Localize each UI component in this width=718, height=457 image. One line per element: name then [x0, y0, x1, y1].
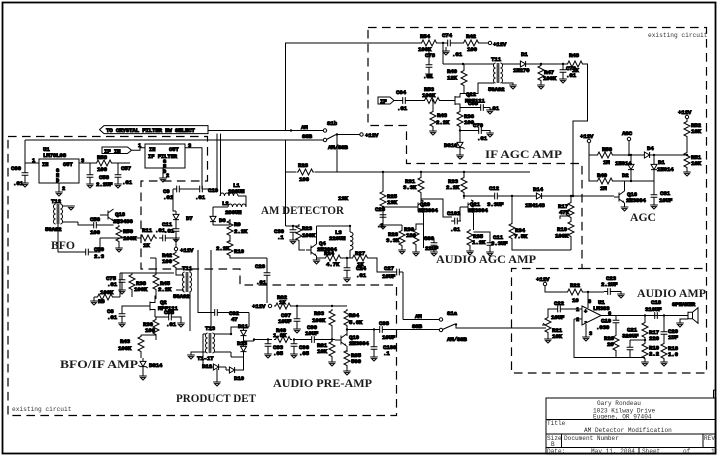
svg-text:R43: R43 [437, 112, 448, 119]
svg-text:2: 2 [576, 317, 579, 323]
resistor R31 [403, 171, 424, 202]
svg-text:D1: D1 [658, 159, 665, 166]
transistor Q19 [335, 327, 369, 352]
svg-text:.05: .05 [273, 350, 284, 357]
svg-text:2.2UF: 2.2UF [96, 181, 113, 188]
svg-text:13K: 13K [338, 195, 349, 202]
svg-text:1M: 1M [600, 185, 607, 192]
capacitor C7 [155, 309, 185, 328]
resistor R26 [383, 213, 406, 254]
wire top loop [286, 43, 421, 131]
svg-text:2.3: 2.3 [94, 253, 105, 260]
resistor R61 [317, 338, 336, 366]
svg-text:+12V: +12V [678, 109, 692, 116]
capacitor C78 [423, 48, 436, 80]
svg-text:C68: C68 [468, 100, 479, 107]
svg-text:C98: C98 [379, 320, 390, 327]
resistor R43 [118, 335, 156, 358]
svg-text:May 11, 2004: May 11, 2004 [591, 448, 635, 455]
svg-text:R59: R59 [123, 228, 134, 235]
svg-text:1M: 1M [603, 159, 610, 166]
svg-text:IF: IF [380, 98, 387, 105]
svg-text:6: 6 [608, 311, 611, 317]
svg-text:R11: R11 [142, 227, 153, 234]
svg-text:100K: 100K [543, 75, 557, 82]
ground product det [213, 382, 221, 386]
capacitor C22 [548, 300, 582, 321]
capacitor C58 [87, 163, 114, 188]
capacitor C12 [463, 185, 533, 208]
switch S1b [301, 120, 348, 151]
+12V terminal at S1b [360, 132, 379, 139]
resistor R24 [317, 250, 343, 268]
capacitor C99 [294, 324, 335, 343]
svg-text:R22: R22 [570, 282, 581, 289]
svg-text:L2: L2 [222, 200, 229, 207]
svg-text:AM: AM [301, 124, 308, 131]
svg-text:T13: T13 [205, 325, 216, 332]
svg-text:3.3UF: 3.3UF [487, 201, 504, 208]
svg-text:TO CRYSTAL FILTER BW SELECT: TO CRYSTAL FILTER BW SELECT [106, 127, 195, 134]
svg-text:AM DETECTOR: AM DETECTOR [261, 204, 345, 217]
capacitor C18 [645, 299, 662, 319]
svg-text:47: 47 [231, 316, 238, 323]
wire IF FILTER gnd [162, 168, 164, 178]
svg-text:560: 560 [351, 358, 362, 365]
svg-text:100K: 100K [134, 286, 148, 293]
resistor R23 [293, 224, 316, 250]
diode D10 [217, 357, 245, 382]
resistor R47 [537, 63, 557, 89]
wire agc line junction [572, 195, 574, 197]
svg-text:Sheet: Sheet [642, 448, 661, 455]
resistor R63 [312, 309, 335, 340]
+12V terminal agc [580, 133, 597, 155]
zener DS16 [444, 139, 465, 159]
svg-text:AM/SSB: AM/SSB [328, 144, 348, 151]
svg-text:50A02: 50A02 [173, 293, 190, 300]
resistor R30 [404, 224, 424, 256]
svg-text:4.7K: 4.7K [326, 261, 340, 268]
transistor Q18 [100, 209, 133, 225]
ground under C58 [86, 181, 94, 188]
svg-text:PRODUCT DET: PRODUCT DET [176, 392, 256, 405]
svg-text:existing circuit: existing circuit [648, 32, 708, 39]
existing circuit dashed boundary (top right region) [368, 28, 707, 374]
switch S1a [412, 310, 467, 343]
svg-text:2N3904: 2N3904 [626, 197, 646, 204]
svg-text:1N914: 1N914 [657, 166, 674, 173]
svg-text:10UF: 10UF [382, 273, 396, 280]
wire bw select risers [217, 134, 221, 188]
+12V terminal right [678, 109, 692, 120]
diode D12 [202, 352, 226, 370]
svg-text:AUDIO AGC AMP: AUDIO AGC AMP [436, 253, 536, 266]
diode D11 [230, 313, 249, 340]
+12V terminal top [488, 41, 507, 48]
svg-text:100K: 100K [118, 345, 132, 352]
svg-text:R54: R54 [420, 33, 431, 40]
capacitor C26 [255, 258, 270, 303]
capacitor C79 [559, 63, 576, 83]
svg-text:Gary Rondeau: Gary Rondeau [597, 400, 641, 407]
capacitor C19 [596, 316, 619, 332]
svg-text:2.2K: 2.2K [234, 228, 248, 235]
svg-text:10UF: 10UF [551, 314, 565, 321]
resistor R11 [100, 227, 157, 249]
resistor R25 [380, 171, 398, 208]
svg-text:1N270: 1N270 [513, 67, 530, 74]
block IF FILTER [145, 143, 191, 175]
svg-text:3: 3 [589, 331, 592, 337]
op-amp U1 LM386 [576, 292, 611, 341]
+12V terminal audio amp [536, 276, 566, 292]
diode D1 [502, 51, 536, 74]
resistor R19 [641, 339, 659, 366]
svg-text:BFO: BFO [51, 239, 75, 252]
svg-text:1: 1 [138, 143, 141, 149]
svg-text:+12V: +12V [365, 132, 379, 139]
svg-text:310UF: 310UF [645, 306, 662, 313]
svg-text:1K: 1K [572, 67, 579, 74]
capacitor C9 [163, 186, 196, 201]
transistor Q4 [306, 226, 337, 264]
svg-text:C18: C18 [651, 299, 662, 306]
wire U1 out [79, 162, 130, 164]
resistor R50 [596, 146, 641, 166]
svg-text:1: 1 [711, 448, 715, 455]
svg-text:1N4148: 1N4148 [525, 202, 545, 209]
svg-text:OUT: OUT [63, 162, 73, 168]
diode D6 [210, 213, 230, 225]
svg-text:D4: D4 [647, 145, 654, 152]
wire S1a to audio amp [456, 325, 546, 329]
capacitor C30 [424, 235, 439, 256]
svg-text:2.2UF: 2.2UF [601, 281, 618, 288]
transistor Q21 [460, 200, 488, 230]
svg-text:.1: .1 [277, 234, 284, 241]
resistor R65 [343, 349, 361, 375]
diode D13 [231, 339, 248, 357]
svg-text:C22: C22 [554, 300, 565, 307]
svg-text:C27: C27 [384, 265, 395, 272]
svg-text:10K: 10K [317, 348, 328, 355]
svg-text:.01: .01 [477, 135, 488, 142]
svg-text:C70: C70 [473, 122, 484, 129]
ground under U1 [55, 192, 63, 196]
resistor R62 [274, 294, 347, 309]
capacitor C68 [460, 100, 500, 114]
svg-text:180: 180 [406, 232, 417, 239]
svg-text:T11: T11 [182, 265, 193, 272]
svg-text:IN: IN [149, 147, 155, 153]
svg-text:+12V: +12V [536, 276, 550, 283]
capacitor C92 [198, 250, 249, 323]
wire AM bus [208, 130, 324, 132]
svg-text:D6: D6 [219, 217, 226, 224]
svg-text:5.6K: 5.6K [349, 319, 363, 326]
svg-text:+12V: +12V [493, 41, 507, 48]
svg-text:R28: R28 [298, 162, 309, 169]
svg-text:+12V: +12V [580, 133, 594, 140]
resistor R18 [660, 338, 678, 366]
svg-text:.01: .01 [107, 281, 118, 288]
wire SSB bus [25, 139, 324, 141]
capacitor C97 [278, 306, 301, 333]
svg-text:+: + [584, 309, 587, 315]
svg-text:22UF: 22UF [425, 245, 439, 252]
resistor R64 [344, 309, 363, 336]
svg-text:100K: 100K [302, 232, 316, 239]
svg-text:2N3486: 2N3486 [113, 218, 133, 225]
svg-text:R42: R42 [466, 33, 477, 40]
pot R17b [558, 195, 574, 219]
svg-text:12K: 12K [447, 75, 458, 82]
svg-text:IN: IN [42, 162, 48, 168]
svg-text:IF AGC AMP: IF AGC AMP [485, 148, 562, 161]
svg-text:100: 100 [90, 229, 101, 236]
resistor R38 [129, 273, 148, 297]
svg-text:1.2K: 1.2K [472, 239, 486, 246]
svg-text:2.2K: 2.2K [158, 286, 172, 293]
svg-text:100: 100 [97, 166, 108, 173]
svg-text:R64: R64 [349, 312, 360, 319]
ground under C57 [114, 181, 122, 188]
wire feedback [574, 316, 688, 358]
svg-text:C81: C81 [660, 190, 671, 197]
svg-text:.05: .05 [299, 350, 310, 357]
ground T13 [187, 334, 203, 359]
svg-text:10UF: 10UF [278, 318, 292, 325]
svg-text:.01: .01 [164, 228, 175, 235]
svg-text:R23: R23 [302, 225, 313, 232]
diode D4 [641, 145, 687, 158]
svg-text:S1b: S1b [327, 120, 338, 127]
svg-text:R48: R48 [569, 52, 580, 59]
resistor R36b [457, 108, 475, 140]
capacitor C57 [115, 163, 133, 186]
diode D14 [525, 186, 614, 209]
svg-text:R9: R9 [234, 221, 241, 228]
zener DS14 [138, 358, 162, 380]
wire S1b common to +12V [337, 134, 360, 136]
svg-text:B: B [551, 441, 555, 448]
svg-text:100: 100 [299, 176, 310, 183]
resistor R43b [429, 99, 450, 135]
svg-text:C101: C101 [447, 210, 461, 217]
transistor Q2 [136, 296, 178, 317]
flag TO CRYSTAL FILTER BW SELECT [100, 126, 209, 134]
svg-text:.01: .01 [450, 226, 461, 233]
resistor R35 [466, 229, 486, 255]
svg-text:2: 2 [62, 186, 65, 192]
resistor R10 [216, 239, 267, 258]
svg-text:.01: .01 [489, 105, 500, 112]
svg-text:100: 100 [145, 327, 156, 334]
resistor R54 [418, 33, 438, 53]
svg-text:C24: C24 [356, 265, 367, 272]
capacitor C39 [274, 225, 297, 244]
svg-text:.01: .01 [452, 51, 463, 58]
svg-text:1UF: 1UF [668, 334, 679, 341]
svg-text:.01: .01 [195, 194, 206, 201]
svg-text:2.2K: 2.2K [436, 119, 450, 126]
transformer T11b [173, 265, 193, 331]
svg-text:3.3K: 3.3K [386, 237, 400, 244]
existing circuit dashed boundary (left region) [8, 137, 397, 416]
capacitor C98 [376, 320, 440, 341]
+12V terminal BFO/IF amp [174, 247, 194, 254]
capacitor C56 [78, 216, 114, 236]
resistor R17 [642, 314, 660, 342]
inductor L3 [329, 225, 353, 258]
svg-text:13K: 13K [387, 199, 398, 206]
resistor R34 [509, 195, 571, 250]
svg-text:LM78L08: LM78L08 [43, 152, 67, 159]
ground under IF FILTER [159, 178, 167, 182]
svg-text:C74: C74 [442, 32, 453, 39]
resistor R9 [227, 219, 248, 242]
resistor R6 [94, 273, 120, 305]
svg-text:3.3K: 3.3K [403, 184, 417, 191]
svg-text:Date:: Date: [547, 448, 565, 455]
svg-text:10K: 10K [691, 160, 702, 167]
svg-text:AM Detector Modification: AM Detector Modification [584, 427, 672, 434]
wire AM line [403, 319, 440, 321]
resistor R58 [95, 154, 113, 173]
svg-text:R49: R49 [597, 172, 608, 179]
svg-text:10K: 10K [552, 333, 563, 340]
svg-text:S1a: S1a [447, 310, 458, 317]
svg-text:REV: REV [704, 435, 715, 442]
svg-text:D7: D7 [186, 215, 193, 222]
svg-text:existing circuit: existing circuit [12, 406, 72, 413]
ground R6 [90, 297, 98, 305]
transistor Q16 [614, 181, 646, 211]
capacitor C70 [459, 122, 494, 142]
svg-text:R27: R27 [355, 250, 366, 257]
resistor R51 [683, 151, 701, 176]
transformer T12 [45, 198, 78, 233]
svg-text:R43: R43 [120, 338, 131, 345]
resistor R48 [536, 52, 584, 74]
svg-text:R63: R63 [314, 310, 325, 317]
svg-text:1.8K: 1.8K [273, 332, 287, 339]
resistor R45 [153, 273, 172, 299]
resistor R40 [273, 327, 292, 343]
svg-text:C88: C88 [164, 309, 175, 316]
svg-text:D14: D14 [533, 186, 544, 193]
resistor R49 [442, 42, 467, 94]
svg-text:C60: C60 [11, 165, 22, 172]
svg-text:T11: T11 [491, 56, 502, 63]
svg-text:100K: 100K [312, 317, 326, 324]
capacitor C21 [622, 327, 646, 358]
transistor Q22 [449, 91, 485, 108]
wire agc amp bus [286, 171, 531, 173]
capacitor C23 [601, 275, 625, 298]
svg-text:DS16: DS16 [444, 142, 458, 149]
svg-text:R24: R24 [324, 250, 335, 257]
resistor R19b [555, 219, 574, 250]
svg-text:C12: C12 [489, 185, 500, 192]
svg-text:100K: 100K [100, 289, 114, 296]
capacitor C83 [264, 338, 283, 358]
svg-text:7.5K: 7.5K [514, 233, 528, 240]
svg-text:T12: T12 [51, 198, 62, 205]
audio amp box top dashed [582, 268, 707, 270]
svg-text:AUDIO AMP: AUDIO AMP [637, 287, 706, 300]
svg-text:AGC: AGC [622, 130, 633, 137]
transistor Q20 [382, 200, 439, 248]
svg-text:R6: R6 [98, 298, 105, 305]
svg-text:T1-1T: T1-1T [197, 355, 214, 362]
svg-text:IF IN: IF IN [104, 148, 121, 155]
capacitor C27 [369, 258, 403, 320]
svg-text:280UH: 280UH [228, 188, 245, 195]
capacitor C75 [106, 273, 174, 294]
capacitor C101 [447, 210, 461, 233]
svg-text:100: 100 [162, 258, 173, 265]
svg-text:C64: C64 [396, 89, 407, 96]
capacitor C6 [107, 306, 136, 327]
resistor R28 [297, 162, 315, 183]
inductor L1 [220, 182, 246, 207]
svg-text:C56: C56 [90, 216, 101, 223]
title block text [547, 400, 715, 455]
svg-text:2N3904: 2N3904 [418, 207, 438, 214]
title block frame [546, 390, 717, 454]
svg-text:.01: .01 [256, 279, 267, 286]
svg-text:10UF: 10UF [305, 330, 319, 337]
svg-text:220UH: 220UH [329, 235, 346, 242]
svg-text:D1: D1 [521, 51, 528, 58]
wire vertical x285 [285, 140, 287, 226]
svg-text:.01: .01 [122, 179, 133, 186]
transformer T13 [197, 325, 231, 362]
svg-text:2.2K: 2.2K [446, 184, 460, 191]
svg-text:+12V: +12V [252, 303, 266, 310]
svg-text:.01: .01 [163, 194, 174, 201]
capacitor C11 [474, 232, 509, 256]
svg-text:320UF: 320UF [622, 333, 639, 340]
regulator U1 LM78L08 [32, 146, 84, 192]
svg-text:2N3904: 2N3904 [349, 340, 369, 347]
svg-text:AUDIO PRE-AMP: AUDIO PRE-AMP [273, 377, 372, 390]
svg-text:.01: .01 [166, 321, 177, 328]
capacitor C96 [290, 338, 309, 358]
resistor R59 [114, 221, 137, 252]
flag IF IN [102, 143, 145, 155]
svg-text:Title: Title [547, 420, 566, 427]
svg-text:Eugene, OR 97404: Eugene, OR 97404 [593, 413, 652, 420]
capacitor C11b [162, 221, 180, 242]
svg-text:10: 10 [572, 297, 579, 304]
resistor R53 [422, 86, 449, 104]
svg-text:OUT: OUT [169, 147, 179, 153]
transformer T11 [443, 56, 517, 94]
svg-text:10UF: 10UF [382, 334, 396, 341]
resistor R52 [684, 120, 702, 156]
svg-text:SPEAKER: SPEAKER [672, 301, 696, 308]
diode D7 [173, 189, 193, 223]
svg-text:Q18: Q18 [115, 211, 126, 218]
capacitor C29 [375, 206, 387, 229]
svg-text:10K: 10K [691, 128, 702, 135]
capacitor C59 [58, 224, 105, 260]
svg-text:220: 220 [649, 335, 660, 342]
svg-text:of: of [683, 448, 691, 455]
